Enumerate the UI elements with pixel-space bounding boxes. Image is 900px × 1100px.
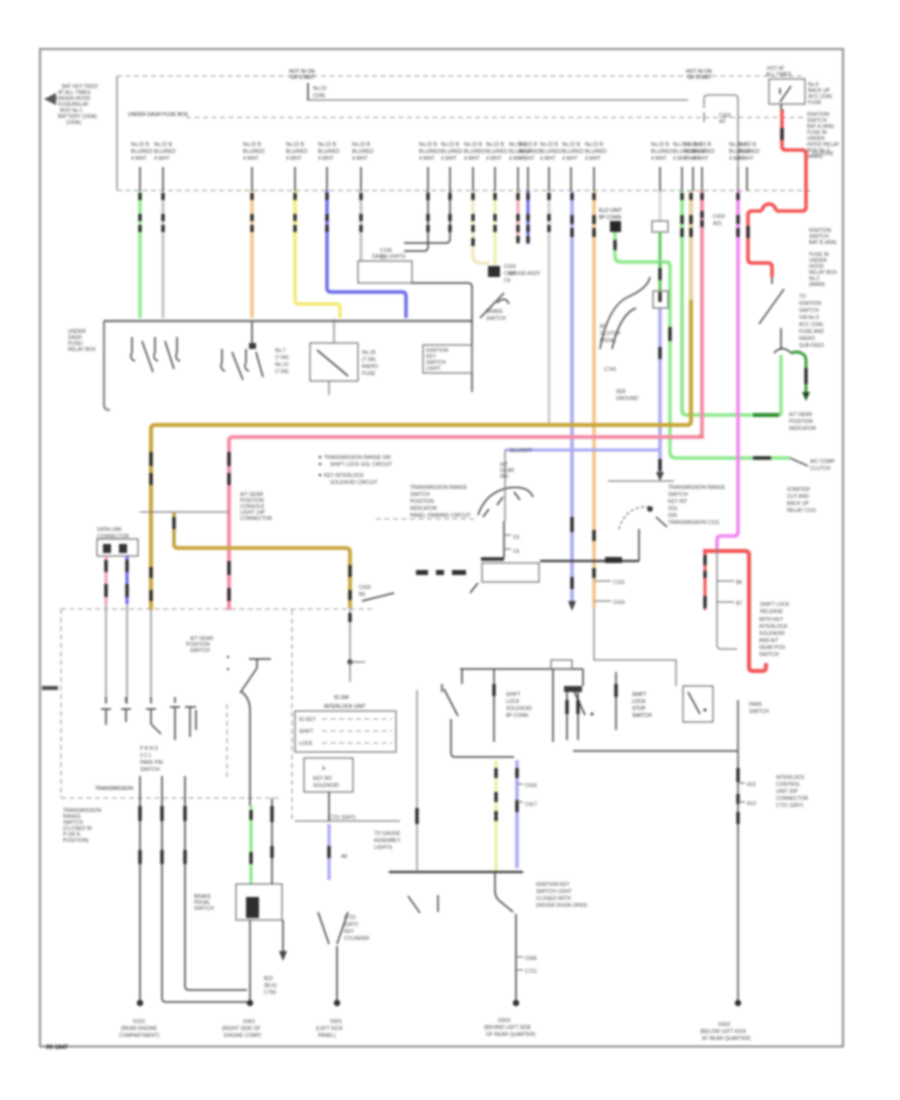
svg-text:4 WHT: 4 WHT — [464, 156, 480, 162]
svg-text:A21: A21 — [713, 221, 722, 227]
svg-text:C416: C416 — [359, 585, 371, 591]
svg-text:No.22 B: No.22 B — [318, 142, 337, 148]
svg-text:BRAKE: BRAKE — [486, 309, 504, 315]
svg-text:TRANSMISSION RANGE: TRANSMISSION RANGE — [668, 485, 726, 491]
svg-text:BLU/RED: BLU/RED — [352, 149, 374, 155]
svg-text:No.18: No.18 — [362, 350, 376, 356]
svg-text:No.22 B: No.22 B — [352, 142, 371, 148]
svg-text:CYLINDER: CYLINDER — [344, 936, 370, 942]
svg-text:FUSE: FUSE — [808, 100, 822, 106]
svg-text:LIGHT: LIGHT — [426, 366, 441, 372]
svg-text:(7.5A): (7.5A) — [275, 355, 289, 361]
svg-text:BAT B (40A): BAT B (40A) — [809, 240, 837, 246]
svg-text:BLU/RED: BLU/RED — [419, 149, 441, 155]
svg-text:ALL TIMES: ALL TIMES — [766, 72, 792, 78]
svg-text:RELEASE: RELEASE — [760, 609, 784, 615]
svg-text:05-1847: 05-1847 — [46, 1045, 69, 1051]
svg-text:4 WHT: 4 WHT — [519, 156, 535, 162]
svg-text:C416: C416 — [504, 264, 516, 270]
svg-text:(BEHIND LEFT SIDE: (BEHIND LEFT SIDE — [484, 1025, 532, 1031]
svg-text:CONNECTOR: CONNECTOR — [776, 796, 809, 802]
svg-text:SWITCH: SWITCH — [799, 308, 819, 314]
svg-text:POSITION): POSITION) — [63, 838, 89, 844]
svg-text:ACC (10A): ACC (10A) — [799, 322, 824, 328]
svg-text:MT: MT — [600, 324, 607, 330]
svg-text:(10A): (10A) — [313, 93, 326, 99]
svg-text:SOLENOID: SOLENOID — [506, 706, 532, 712]
svg-text:A3: A3 — [719, 119, 725, 125]
svg-text:SWITCH: SWITCH — [668, 492, 688, 498]
svg-text:PANEL DIMMING CIRCUIT: PANEL DIMMING CIRCUIT — [410, 513, 471, 519]
svg-text:C6: C6 — [513, 549, 520, 555]
svg-text:SHIFT: SHIFT — [506, 692, 520, 698]
svg-text:LIGHTS: LIGHTS — [374, 845, 393, 851]
svg-text:SWITCH: SWITCH — [190, 648, 210, 654]
svg-text:PANEL): PANEL) — [318, 1033, 336, 1039]
svg-text:(RIGHT SIDE OF: (RIGHT SIDE OF — [222, 1026, 261, 1032]
svg-text:C5: C5 — [513, 535, 520, 541]
svg-text:G501: G501 — [330, 1019, 342, 1025]
svg-text:No.22 B: No.22 B — [286, 142, 305, 148]
svg-text:ENGINE COMP): ENGINE COMP) — [224, 1033, 262, 1039]
svg-text:4 WHT: 4 WHT — [286, 156, 302, 162]
svg-text:ELD UNIT: ELD UNIT — [599, 208, 622, 214]
svg-text:(LEFT KICK: (LEFT KICK — [316, 1026, 344, 1032]
svg-text:8P CONN: 8P CONN — [599, 215, 622, 221]
svg-text:BACK UP: BACK UP — [787, 501, 810, 507]
svg-text:DRIVER DOOR OPEN: DRIVER DOOR OPEN — [536, 903, 587, 909]
svg-text:C743: C743 — [604, 367, 616, 373]
svg-text:FUSE: FUSE — [362, 371, 376, 377]
svg-text:CLOSED WITH: CLOSED WITH — [536, 896, 571, 902]
svg-text:4 WHT: 4 WHT — [441, 156, 457, 162]
svg-text:4 WHT: 4 WHT — [154, 156, 170, 162]
svg-text:4 WHT: 4 WHT — [352, 156, 368, 162]
svg-text:G503: G503 — [498, 1018, 510, 1024]
svg-text:INDICATOR: INDICATOR — [789, 426, 816, 432]
svg-text:(GRY): (GRY) — [344, 922, 358, 928]
svg-text:No.22 B: No.22 B — [540, 142, 559, 148]
svg-text:BLU/RED: BLU/RED — [441, 149, 463, 155]
svg-text:TO GAUGE: TO GAUGE — [374, 831, 401, 837]
svg-text:IG SW: IG SW — [334, 695, 349, 701]
svg-text:BLU/RED: BLU/RED — [738, 149, 760, 155]
svg-text:SEE: SEE — [616, 389, 627, 395]
svg-text:TRANSMISSION RANGE SW: TRANSMISSION RANGE SW — [324, 455, 391, 461]
svg-text:SWITCH: SWITCH — [486, 316, 506, 322]
svg-text:G401: G401 — [243, 1019, 255, 1025]
svg-text:C416: C416 — [525, 783, 537, 789]
svg-text:BLU/WHT: BLU/WHT — [510, 448, 533, 454]
svg-text:PARK PIN: PARK PIN — [140, 760, 163, 766]
svg-text:C721: C721 — [525, 969, 537, 975]
svg-text:4 WHT: 4 WHT — [562, 156, 578, 162]
svg-text:IND: IND — [500, 474, 509, 480]
svg-text:No.22 B: No.22 B — [738, 142, 757, 148]
svg-text:INDICATOR: INDICATOR — [410, 506, 437, 512]
svg-text:No.22 B: No.22 B — [243, 142, 262, 148]
svg-text:SWITCH: SWITCH — [140, 767, 160, 773]
svg-text:SWITCH LIGHT: SWITCH LIGHT — [536, 889, 572, 895]
svg-text:No.23: No.23 — [313, 86, 327, 92]
svg-text:KEY: KEY — [344, 929, 355, 935]
svg-text:AND A/T: AND A/T — [759, 638, 778, 644]
svg-text:SOLENOID: SOLENOID — [313, 783, 339, 789]
svg-text:RADIO: RADIO — [799, 336, 815, 342]
svg-text:BLU/RED: BLU/RED — [519, 149, 541, 155]
svg-text:No.22 B: No.22 B — [131, 142, 150, 148]
svg-text:B22: B22 — [264, 976, 273, 982]
svg-text:C416: C416 — [713, 214, 725, 220]
svg-text:4 WHT: 4 WHT — [540, 156, 556, 162]
svg-text:B7: B7 — [736, 601, 742, 607]
svg-text:B5: B5 — [359, 592, 365, 598]
svg-text:BLU/RED: BLU/RED — [464, 149, 486, 155]
svg-text:CONNECTOR: CONNECTOR — [240, 516, 273, 522]
svg-text:C565: C565 — [525, 956, 537, 962]
svg-text:C416: C416 — [613, 600, 625, 606]
svg-text:C721 (GRY): C721 (GRY) — [776, 803, 804, 809]
svg-text:SUB FEED: SUB FEED — [799, 343, 824, 349]
svg-text:4 WHT: 4 WHT — [651, 156, 667, 162]
svg-text:No.22 B: No.22 B — [419, 142, 438, 148]
svg-text:3 2 1: 3 2 1 — [140, 753, 151, 759]
svg-text:TO FUSE: TO FUSE — [812, 151, 834, 157]
svg-text:CONTROL: CONTROL — [776, 782, 801, 788]
svg-text:KEY INT: KEY INT — [668, 499, 687, 505]
svg-text:G502: G502 — [718, 1022, 730, 1028]
svg-text:No.22 B: No.22 B — [464, 142, 483, 148]
svg-text:No.22 B: No.22 B — [441, 142, 460, 148]
svg-text:No.22 B: No.22 B — [486, 142, 505, 148]
svg-text:BLU/RED: BLU/RED — [540, 149, 562, 155]
svg-text:B6: B6 — [736, 580, 742, 586]
svg-text:No.22 B: No.22 B — [585, 142, 604, 148]
svg-text:SOLENOID: SOLENOID — [759, 631, 785, 637]
svg-text:(BLK): (BLK) — [264, 983, 277, 989]
svg-text:CLUTCH: CLUTCH — [600, 331, 621, 337]
svg-text:UNIT 20P: UNIT 20P — [776, 789, 799, 795]
svg-text:BLU/RED: BLU/RED — [486, 149, 508, 155]
svg-text:SHIFT: SHIFT — [299, 729, 313, 735]
svg-text:SWITCH: SWITCH — [194, 906, 214, 912]
svg-text:A12: A12 — [747, 782, 756, 788]
svg-text:C750: C750 — [264, 990, 276, 996]
svg-text:RELAY C101: RELAY C101 — [787, 508, 816, 514]
svg-text:4 WHT: 4 WHT — [486, 156, 502, 162]
svg-text:No.22 B: No.22 B — [562, 142, 581, 148]
svg-text:PEDAL: PEDAL — [600, 338, 617, 344]
svg-text:No.7: No.7 — [275, 348, 286, 354]
svg-text:A/C COMP: A/C COMP — [810, 459, 835, 465]
svg-text:GAUGE ASSY: GAUGE ASSY — [508, 271, 541, 277]
svg-text:KEY INTERLOCK: KEY INTERLOCK — [324, 473, 365, 479]
svg-text:LOCK: LOCK — [632, 699, 646, 705]
svg-text:FUSE AND: FUSE AND — [799, 329, 824, 335]
svg-text:8P CONN: 8P CONN — [506, 713, 529, 719]
svg-text:STOP: STOP — [632, 706, 646, 712]
svg-text:INTERLOCK UNIT: INTERLOCK UNIT — [324, 704, 366, 710]
svg-text:C6: C6 — [504, 278, 511, 284]
svg-text:UNDER-DASH FUSE BOX: UNDER-DASH FUSE BOX — [128, 112, 189, 118]
svg-text:SOL: SOL — [668, 506, 678, 512]
svg-text:(BELOW LEFT KICK: (BELOW LEFT KICK — [700, 1029, 747, 1035]
svg-text:CLUTCH: CLUTCH — [810, 466, 831, 472]
svg-text:IG KEY: IG KEY — [299, 717, 316, 723]
svg-text:LOCK: LOCK — [506, 699, 520, 705]
svg-text:No.13: No.13 — [275, 362, 289, 368]
svg-text:STARTER: STARTER — [787, 487, 810, 493]
svg-text:BLU/RED: BLU/RED — [318, 149, 340, 155]
svg-text:TRANSMISSION RANGE: TRANSMISSION RANGE — [410, 485, 468, 491]
svg-text:No.22 B: No.22 B — [154, 142, 173, 148]
svg-text:BLU/RED: BLU/RED — [286, 149, 308, 155]
svg-text:KEY INT: KEY INT — [313, 776, 332, 782]
svg-text:COMPARTMENT): COMPARTMENT) — [119, 1033, 160, 1039]
svg-text:OF REAR QUARTER): OF REAR QUARTER) — [486, 1032, 536, 1038]
svg-text:INTERLOCK: INTERLOCK — [776, 775, 805, 781]
svg-text:A/T GEAR: A/T GEAR — [789, 412, 813, 418]
svg-text:4 WHT: 4 WHT — [419, 156, 435, 162]
svg-text:SWITCH: SWITCH — [749, 709, 769, 715]
svg-text:4 WHT: 4 WHT — [693, 156, 709, 162]
svg-text:C721 (GRY): C721 (GRY) — [328, 815, 356, 821]
svg-text:C721: C721 — [344, 915, 356, 921]
svg-text:VIA No.9: VIA No.9 — [799, 315, 819, 321]
svg-text:C417: C417 — [525, 802, 537, 808]
svg-text:DATA LINK: DATA LINK — [97, 527, 122, 533]
svg-text:(REAR ENGINE: (REAR ENGINE — [121, 1026, 158, 1032]
svg-text:SWITCH: SWITCH — [632, 713, 652, 719]
svg-text:C101: C101 — [613, 580, 625, 586]
svg-text:(MAIN): (MAIN) — [809, 282, 825, 288]
svg-text:A8: A8 — [341, 854, 347, 860]
svg-text:BLU/RED: BLU/RED — [243, 149, 265, 155]
svg-text:GROUND: GROUND — [616, 396, 639, 402]
svg-text:BLU/RED: BLU/RED — [562, 149, 584, 155]
svg-text:(7.5A): (7.5A) — [362, 357, 376, 363]
svg-text:(7.5A): (7.5A) — [275, 369, 289, 375]
svg-text:BLU/RED: BLU/RED — [693, 149, 715, 155]
svg-text:IGNITION KEY: IGNITION KEY — [536, 882, 570, 888]
svg-text:PARK: PARK — [749, 702, 763, 708]
svg-text:A13: A13 — [747, 801, 756, 807]
svg-text:AT REAR QUARTER): AT REAR QUARTER) — [702, 1036, 751, 1042]
svg-text:BLU/RED: BLU/RED — [154, 149, 176, 155]
svg-text:4 WHT: 4 WHT — [243, 156, 259, 162]
svg-text:BLU/RED: BLU/RED — [585, 149, 607, 155]
svg-text:SHIFT: SHIFT — [632, 692, 646, 698]
svg-text:RADIO: RADIO — [362, 364, 378, 370]
svg-text:IGNITION: IGNITION — [799, 301, 822, 307]
svg-text:No.22 B: No.22 B — [651, 142, 670, 148]
svg-text:P R N D: P R N D — [140, 746, 159, 752]
svg-text:SHIFT LOCK SOL CIRCUIT: SHIFT LOCK SOL CIRCUIT — [330, 462, 392, 468]
svg-text:SHIFT LOCK: SHIFT LOCK — [760, 602, 790, 608]
svg-text:RELAY BOX: RELAY BOX — [68, 347, 97, 353]
svg-text:WITH KEY: WITH KEY — [759, 617, 784, 623]
svg-text:OR START: OR START — [290, 75, 315, 81]
svg-text:IGN: IGN — [668, 513, 677, 519]
svg-text:GEAR POS: GEAR POS — [759, 645, 786, 651]
svg-text:DASH LIGHTS: DASH LIGHTS — [372, 254, 406, 260]
svg-text:OR START: OR START — [687, 75, 712, 81]
svg-text:4 WHT: 4 WHT — [738, 156, 754, 162]
svg-text:TRANSMISSION: TRANSMISSION — [95, 786, 133, 792]
svg-text:4 WHT: 4 WHT — [131, 156, 147, 162]
svg-text:(100A): (100A) — [66, 120, 81, 126]
svg-text:LOCK: LOCK — [299, 741, 313, 747]
svg-text:G101: G101 — [133, 1019, 145, 1025]
svg-text:SOLENOID CIRCUIT: SOLENOID CIRCUIT — [330, 480, 378, 486]
svg-text:CUT AND: CUT AND — [787, 494, 809, 500]
svg-text:TO: TO — [799, 294, 806, 300]
svg-text:POSITION: POSITION — [789, 419, 813, 425]
svg-text:No.22 B: No.22 B — [509, 142, 528, 148]
svg-text:No.22 B: No.22 B — [693, 142, 712, 148]
svg-text:BLU/RED: BLU/RED — [651, 149, 673, 155]
svg-text:4 WHT: 4 WHT — [585, 156, 601, 162]
svg-text:POSITION: POSITION — [410, 499, 434, 505]
svg-text:TRANSMISSION C101: TRANSMISSION C101 — [668, 520, 720, 526]
svg-text:SWITCH: SWITCH — [410, 492, 430, 498]
svg-text:4 WHT: 4 WHT — [318, 156, 334, 162]
svg-text:BLU/RED: BLU/RED — [131, 149, 153, 155]
svg-text:INTERLOCK: INTERLOCK — [759, 624, 788, 630]
svg-text:ASSEMBLY: ASSEMBLY — [374, 838, 401, 844]
svg-text:SWITCH: SWITCH — [759, 652, 779, 658]
